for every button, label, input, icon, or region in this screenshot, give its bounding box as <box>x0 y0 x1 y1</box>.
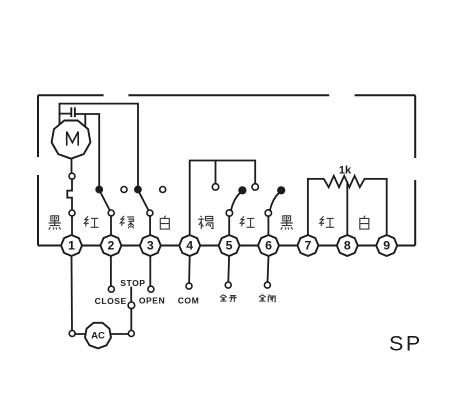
terminal 2 <box>100 235 121 256</box>
label he (brown) <box>198 216 213 229</box>
thermal protector bottom circle <box>69 210 75 216</box>
enclosure dashed border: right edge <box>414 95 416 245</box>
limit switch S6 moving circle <box>265 210 271 216</box>
svg-text:9: 9 <box>383 239 390 253</box>
terminal 3 <box>140 235 161 256</box>
wire: S6 to terminal 6 <box>267 216 269 235</box>
svg-text:1: 1 <box>68 239 75 253</box>
svg-text:CLOSE: CLOSE <box>95 296 127 306</box>
terminal 1 <box>61 235 82 256</box>
AC left node circle <box>69 331 75 337</box>
svg-text:1k: 1k <box>339 165 352 177</box>
wire: resistor wiper to terminal 8 <box>346 183 348 235</box>
AC source body <box>85 323 111 349</box>
wire: selector pole down to AC right node <box>130 309 132 331</box>
wire: terminal 3 to OPEN contact <box>149 256 151 286</box>
terminal 8 <box>337 235 358 256</box>
resistor R1 1k zigzag with taps to terminals 7,8,9 <box>308 176 387 235</box>
AC right node circle <box>128 331 134 337</box>
svg-text:6: 6 <box>265 239 272 253</box>
wire: terminal 6 to full-close <box>268 256 269 282</box>
switch S3 spare contact <box>160 187 166 193</box>
capacitor C plates <box>71 107 75 117</box>
label quan (fully) <box>259 295 266 301</box>
label kai (open) <box>229 296 237 302</box>
motor M body <box>52 121 91 159</box>
wire: thermal to terminal 1 <box>71 216 73 235</box>
limit switch S6 curved lever <box>270 192 280 210</box>
capacitor C leads <box>60 114 100 186</box>
terminal 7 <box>297 235 318 256</box>
limit switch S5 moving circle <box>226 210 232 216</box>
thermal protector top circle <box>69 173 75 179</box>
full-open circle <box>225 282 231 288</box>
switch S3 moving contact circle <box>147 210 153 216</box>
wire: S5 to terminal 5 <box>228 216 230 235</box>
svg-text:AC: AC <box>91 331 105 342</box>
switch S2 spare contact <box>121 187 127 193</box>
COM circle <box>186 283 192 289</box>
wire: switch S2 to terminal 2 <box>110 216 112 235</box>
wire: AC leads <box>75 333 128 335</box>
enclosure dashed border: left edge <box>37 95 39 245</box>
wire: motor to thermal protector <box>71 159 73 174</box>
label hong (red) <box>84 216 98 227</box>
terminal 5 <box>219 235 240 256</box>
CLOSE contact circle <box>108 286 114 292</box>
limit contact circle b <box>252 184 258 190</box>
svg-text:4: 4 <box>186 239 193 253</box>
switch S3 fixed contact (filled) <box>135 186 142 193</box>
switch S2 lever <box>101 193 110 211</box>
motor M letter <box>67 132 79 146</box>
switch S2 fixed contact (filled) <box>96 186 103 193</box>
wire: terminal 2 to CLOSE contact <box>110 256 112 286</box>
label bi (shut) <box>268 295 275 303</box>
svg-text:OPEN: OPEN <box>139 295 165 305</box>
wire: terminal 5 to full-open <box>227 256 230 282</box>
wire: terminal 4 riser and limit rail <box>190 161 256 236</box>
label hei (black) <box>281 216 293 230</box>
svg-text:8: 8 <box>344 239 351 253</box>
label lv (green) <box>120 216 134 228</box>
limit contact circle a <box>212 184 218 190</box>
svg-text:2: 2 <box>107 239 114 253</box>
label hong (red) <box>240 216 254 227</box>
svg-text:5: 5 <box>226 239 233 253</box>
svg-text:STOP: STOP <box>120 278 145 288</box>
thermal protector element <box>67 179 72 210</box>
limit switch S5 ball tip (filled) <box>239 187 246 194</box>
OPEN contact circle <box>148 286 154 292</box>
terminal 9 <box>376 235 397 256</box>
svg-text:COM: COM <box>178 296 200 306</box>
wire: motor top rail <box>60 104 139 186</box>
switch S2 moving contact circle <box>108 210 114 216</box>
svg-text:7: 7 <box>304 239 311 253</box>
limit switch S5 curved lever <box>231 192 241 210</box>
limit switch S6 ball tip (filled) <box>278 187 285 194</box>
label hei (black) <box>49 216 61 230</box>
label bai (white) <box>360 216 369 229</box>
selector switch pole circle <box>128 302 135 309</box>
label bai (white) <box>160 216 169 229</box>
enclosure bottom edge through terminal strip <box>38 245 415 247</box>
label hong (red) <box>320 216 334 227</box>
selector switch lever (STOP position) <box>130 288 132 302</box>
terminal 4 <box>179 235 200 256</box>
svg-text:3: 3 <box>147 239 154 253</box>
full-close circle <box>264 282 270 288</box>
switch S3 lever <box>139 193 148 211</box>
terminal 6 <box>258 235 279 256</box>
label quan (fully) <box>220 295 227 301</box>
wire: terminal 4 to COM <box>188 256 191 283</box>
enclosure dashed border: top edge <box>38 94 415 96</box>
wire: terminal 1 down to AC left node <box>71 256 74 330</box>
svg-text:SP: SP <box>389 332 423 356</box>
wire: switch S3 to terminal 3 <box>149 216 151 235</box>
